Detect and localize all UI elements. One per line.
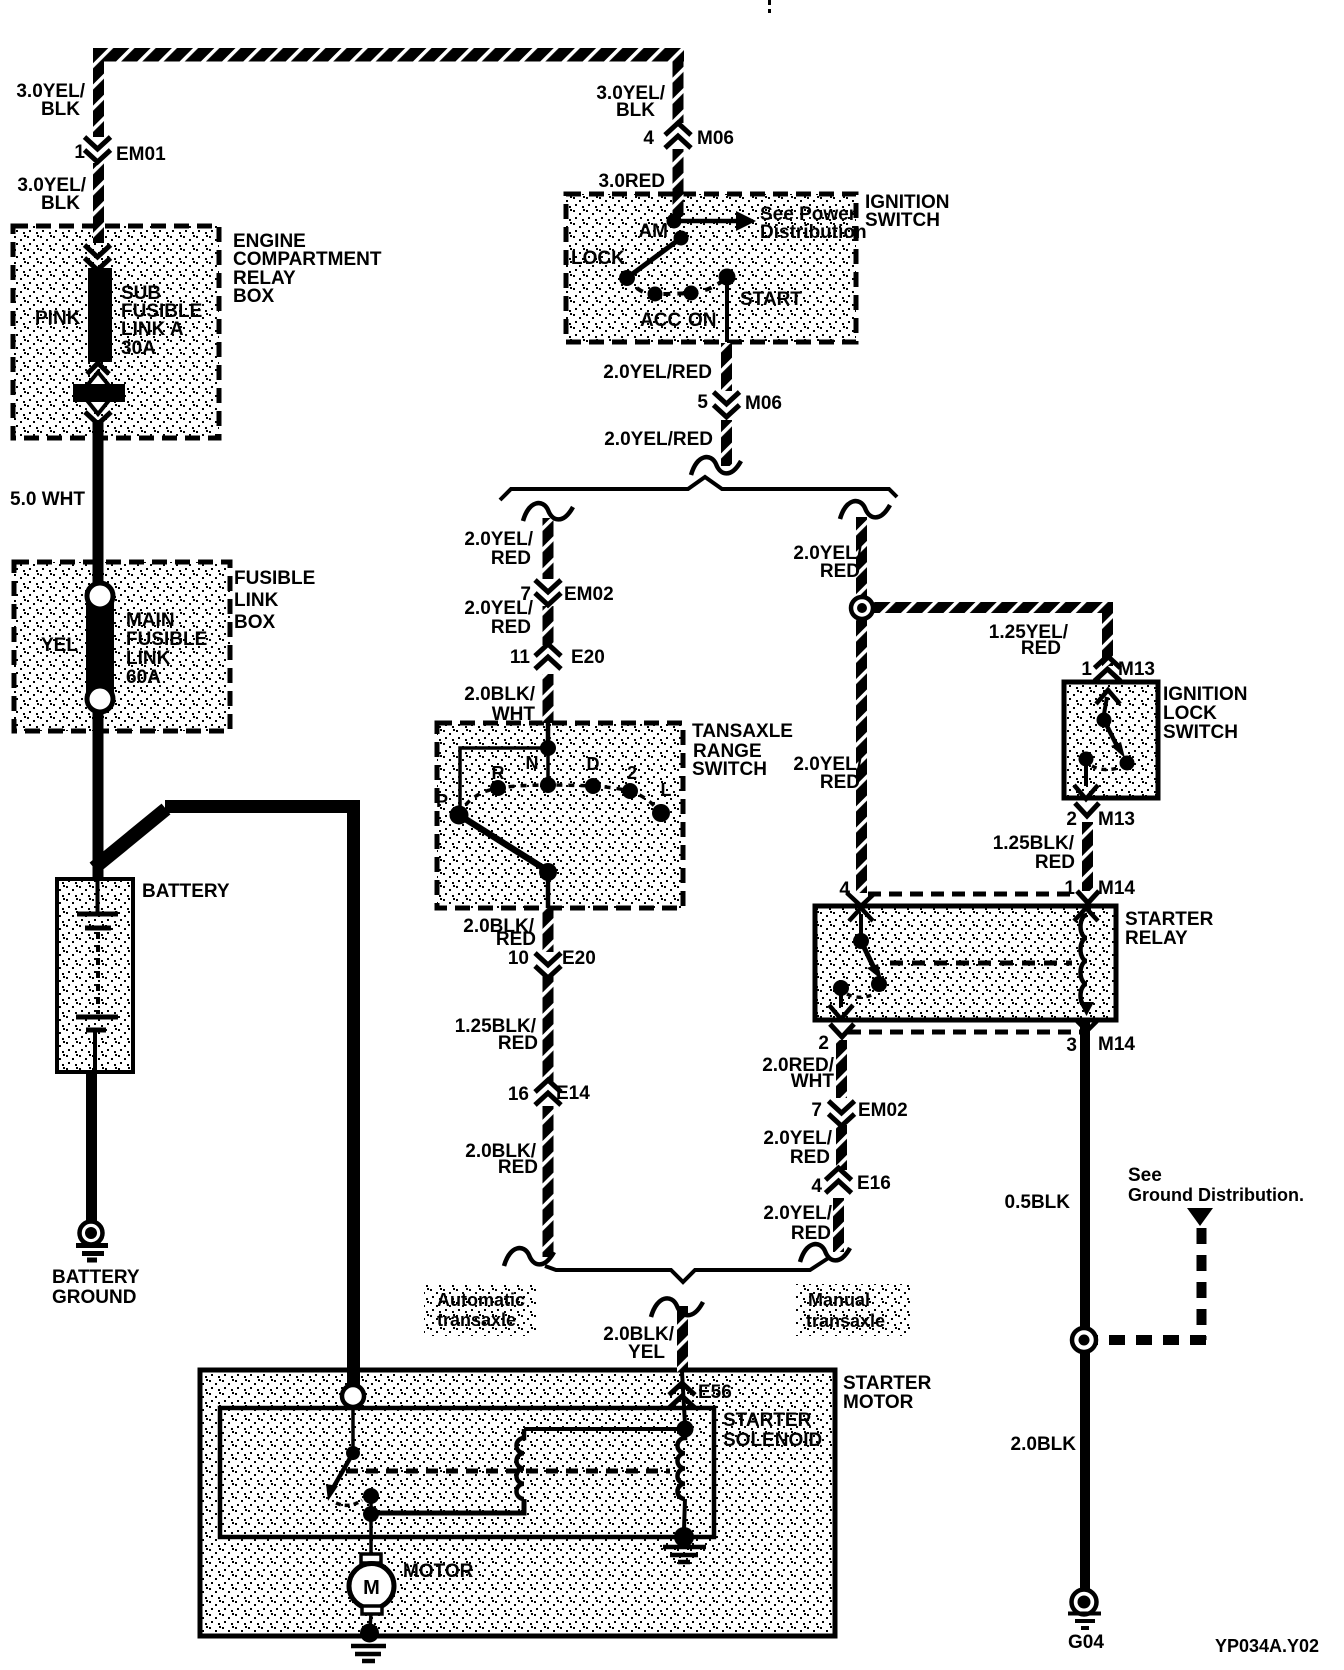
svg-text:0.5BLK: 0.5BLK	[1005, 1192, 1071, 1213]
svg-text:2.0YEL/: 2.0YEL/	[763, 1203, 832, 1224]
svg-text:E14: E14	[556, 1083, 590, 1104]
svg-text:2: 2	[818, 1033, 829, 1054]
svg-text:M06: M06	[697, 128, 734, 149]
svg-text:EM01: EM01	[116, 144, 166, 165]
svg-text:BATTERY: BATTERY	[52, 1267, 140, 1288]
svg-text:R: R	[492, 763, 505, 783]
svg-text:YEL: YEL	[628, 1342, 665, 1363]
svg-text:4: 4	[839, 879, 850, 900]
svg-text:STARTER: STARTER	[723, 1410, 812, 1431]
svg-text:M14: M14	[1098, 1034, 1135, 1055]
svg-text:2.0BLK/: 2.0BLK/	[464, 684, 535, 705]
svg-text:Automatic: Automatic	[437, 1290, 525, 1310]
svg-text:10: 10	[508, 948, 529, 969]
svg-text:RED: RED	[791, 1223, 831, 1244]
svg-text:RED: RED	[491, 617, 531, 638]
svg-text:TANSAXLE: TANSAXLE	[692, 721, 793, 742]
svg-text:2: 2	[627, 763, 637, 783]
svg-text:SOLENOID: SOLENOID	[723, 1430, 822, 1451]
svg-text:E16: E16	[857, 1173, 891, 1194]
svg-text:WHT: WHT	[791, 1071, 835, 1092]
svg-text:M: M	[363, 1577, 380, 1599]
svg-text:RED: RED	[790, 1147, 830, 1168]
svg-text:5: 5	[697, 392, 708, 413]
svg-text:M14: M14	[1098, 878, 1135, 899]
svg-text:4: 4	[811, 1176, 822, 1197]
svg-text:STARTER: STARTER	[843, 1373, 932, 1394]
svg-text:SWITCH: SWITCH	[692, 759, 767, 780]
svg-text:2.0BLK: 2.0BLK	[1011, 1434, 1077, 1455]
svg-text:MOTOR: MOTOR	[843, 1392, 914, 1413]
svg-text:P: P	[436, 791, 448, 811]
svg-text:2.0YEL/RED: 2.0YEL/RED	[603, 362, 712, 383]
svg-text:transaxle: transaxle	[437, 1310, 516, 1330]
svg-text:E20: E20	[562, 948, 596, 969]
svg-text:ON: ON	[688, 310, 717, 331]
svg-text:FUSIBLE: FUSIBLE	[126, 629, 207, 650]
svg-text:START: START	[740, 289, 802, 310]
svg-text:YEL: YEL	[41, 635, 78, 656]
svg-text:M13: M13	[1098, 809, 1135, 830]
svg-text:RED: RED	[820, 561, 860, 582]
svg-text:AM: AM	[638, 221, 668, 242]
svg-text:E20: E20	[571, 647, 605, 668]
svg-text:Ground Distribution.: Ground Distribution.	[1128, 1185, 1304, 1205]
svg-text:LINK A: LINK A	[121, 319, 184, 340]
svg-text:2.0YEL/: 2.0YEL/	[763, 1128, 832, 1149]
svg-text:1.25BLK/: 1.25BLK/	[993, 833, 1075, 854]
svg-text:PINK: PINK	[35, 308, 81, 329]
svg-text:GROUND: GROUND	[52, 1287, 136, 1308]
svg-text:BLK: BLK	[41, 99, 80, 120]
svg-text:2: 2	[1066, 809, 1077, 830]
svg-text:5.0 WHT: 5.0 WHT	[10, 489, 85, 510]
svg-text:16: 16	[508, 1084, 529, 1105]
svg-text:RED: RED	[1021, 638, 1061, 659]
svg-text:1: 1	[1064, 878, 1075, 899]
svg-text:RED: RED	[820, 772, 860, 793]
svg-text:LINK: LINK	[234, 590, 279, 611]
svg-text:Manual: Manual	[808, 1290, 870, 1310]
svg-text:N: N	[526, 753, 539, 773]
svg-text:2.0YEL/RED: 2.0YEL/RED	[604, 429, 713, 450]
svg-text:M06: M06	[745, 393, 782, 414]
svg-text:G04: G04	[1068, 1632, 1104, 1653]
svg-text:transaxle: transaxle	[806, 1311, 885, 1331]
svg-text:1: 1	[1081, 659, 1092, 680]
svg-text:STARTER: STARTER	[1125, 909, 1214, 930]
svg-text:3.0RED: 3.0RED	[598, 171, 665, 192]
svg-text:60A: 60A	[126, 667, 161, 688]
svg-text:3: 3	[1066, 1035, 1077, 1056]
svg-text:30A: 30A	[121, 338, 156, 359]
svg-text:RED: RED	[1035, 852, 1075, 873]
svg-text:Distribution: Distribution	[760, 222, 867, 243]
svg-text:BOX: BOX	[234, 612, 276, 633]
svg-text:2.0YEL/: 2.0YEL/	[464, 529, 533, 550]
svg-text:WHT: WHT	[492, 704, 536, 725]
svg-text:LOCK: LOCK	[1163, 703, 1217, 724]
svg-text:D: D	[587, 754, 600, 774]
svg-text:11: 11	[510, 647, 531, 668]
svg-text:FUSIBLE: FUSIBLE	[234, 568, 315, 589]
svg-text:4: 4	[643, 128, 654, 149]
svg-text:See: See	[1128, 1165, 1162, 1186]
svg-text:RED: RED	[496, 929, 536, 950]
svg-text:YP034A.Y02: YP034A.Y02	[1215, 1636, 1319, 1656]
svg-text:BATTERY: BATTERY	[142, 881, 230, 902]
svg-text:BLK: BLK	[41, 193, 80, 214]
svg-text:RELAY: RELAY	[1125, 928, 1188, 949]
svg-text:7: 7	[811, 1100, 822, 1121]
svg-text:M13: M13	[1118, 659, 1155, 680]
svg-text:EM02: EM02	[564, 584, 614, 605]
svg-text:MAIN: MAIN	[126, 610, 175, 631]
svg-text:ACC: ACC	[640, 310, 681, 331]
svg-text:LINK: LINK	[126, 648, 171, 669]
svg-text:RED: RED	[491, 548, 531, 569]
svg-text:2.0YEL/: 2.0YEL/	[464, 598, 533, 619]
svg-text:LOCK: LOCK	[571, 248, 625, 269]
svg-text:COMPARTMENT: COMPARTMENT	[233, 249, 382, 270]
svg-text:L: L	[661, 780, 672, 800]
svg-text:SWITCH: SWITCH	[1163, 722, 1238, 743]
svg-text:IGNITION: IGNITION	[1163, 684, 1247, 705]
svg-text:RED: RED	[498, 1033, 538, 1054]
svg-text:RED: RED	[498, 1157, 538, 1178]
svg-text:BLK: BLK	[616, 100, 655, 121]
svg-text:EM02: EM02	[858, 1100, 908, 1121]
svg-text:E56: E56	[698, 1382, 732, 1403]
svg-text:1: 1	[74, 142, 85, 163]
svg-text:MOTOR: MOTOR	[403, 1561, 474, 1582]
svg-text:BOX: BOX	[233, 286, 275, 307]
svg-text:SWITCH: SWITCH	[865, 210, 940, 231]
